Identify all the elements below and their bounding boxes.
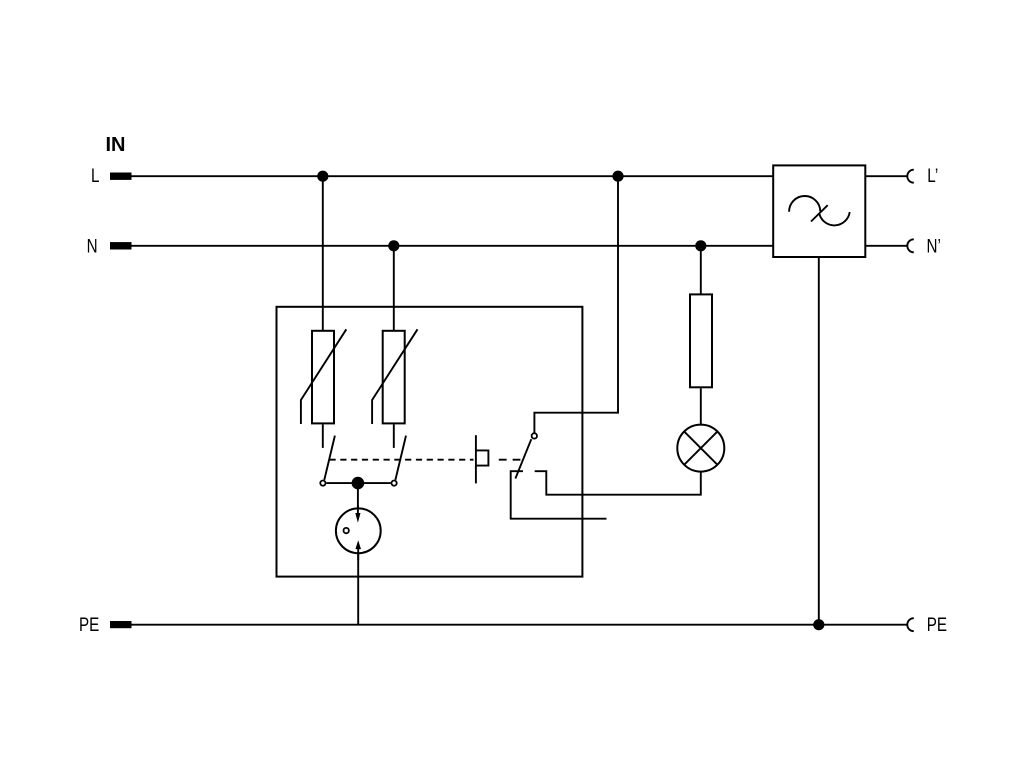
svg-text:IN: IN [106, 134, 126, 156]
svg-text:N: N [87, 235, 98, 257]
svg-text:L: L [91, 164, 99, 186]
svg-text:N’: N’ [927, 235, 941, 257]
svg-text:L’: L’ [927, 164, 938, 186]
svg-text:PE: PE [79, 613, 99, 635]
svg-text:PE: PE [927, 614, 947, 636]
